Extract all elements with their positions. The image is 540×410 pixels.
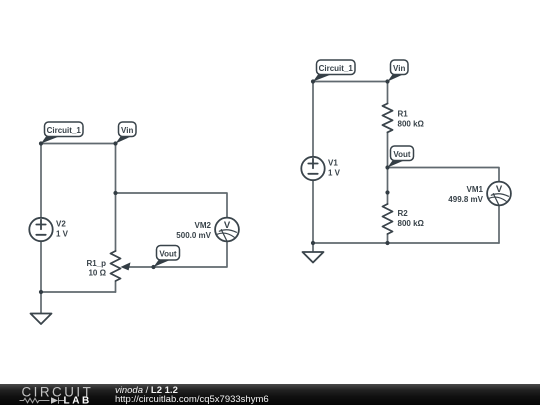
wiper arrow of R1_p [121,262,131,270]
CircuitLab logo [0,384,110,405]
wire: VM2 bottom to wiper [127,242,227,268]
node Vout (right) [385,165,389,169]
svg-text:R1_p: R1_p [86,259,106,268]
svg-text:VM2: VM2 [195,221,212,230]
wire: bottom rail [313,242,499,244]
svg-text:10 Ω: 10 Ω [88,268,106,277]
svg-text:R2: R2 [398,209,409,218]
node Vout (left) [151,265,155,269]
footer bar [0,384,540,405]
svg-text:Circuit_1: Circuit_1 [47,126,82,135]
wire: Vin down to R1_p top [115,144,117,252]
voltmeter VM1 [487,182,511,206]
svg-text:499.8 mV: 499.8 mV [448,195,483,204]
wire: R1 bottom to Vout to R2 [387,132,389,204]
node Vin (left) [113,141,117,145]
node Circuit_1 (right) [311,79,315,83]
svg-text:Vout: Vout [393,150,411,159]
svg-text:1 V: 1 V [56,230,69,239]
svg-text:500.0 mV: 500.0 mV [176,231,211,240]
voltmeter VM2 [215,218,239,242]
svg-text:LAB: LAB [64,396,92,405]
svg-text:V1: V1 [328,159,338,168]
svg-text:Circuit_1: Circuit_1 [319,64,354,73]
wire: V2 top lead [40,144,42,218]
svg-text:1 V: 1 V [328,169,341,178]
junction dot at VM2 tap [113,191,117,195]
wire: V1 top lead [312,82,314,157]
wire: bottom ground rail [41,291,116,293]
node Circuit_1 (left) [39,141,43,145]
junction dot between Vout and R2 [385,190,389,194]
wire: tap to VM2 top [116,193,228,218]
ground (left) [40,292,42,314]
wire: top rail Circuit_1 to Vin [313,81,388,83]
ground (right) [312,243,314,252]
wire: Vout to VM1 [388,168,500,182]
wire: R2 bottom lead [387,234,389,243]
wire: V2 bottom lead to ground rail [40,242,42,293]
voltage source V1 [301,157,324,180]
junction dot R2 bottom [385,241,389,245]
wire: Vin down to R1 [387,82,389,104]
junction dot V1/ground [311,241,315,245]
svg-text:V2: V2 [56,220,66,229]
voltage source V2 [29,218,52,241]
node Vin (right) [385,79,389,83]
svg-text:800 kΩ: 800 kΩ [398,219,425,228]
wire: VM1 bottom lead [498,206,500,244]
svg-text:Vin: Vin [121,126,133,135]
resistor R1 [383,104,393,133]
wire: R1_p bottom lead [115,282,117,292]
svg-text:VM1: VM1 [467,185,484,194]
potentiometer R1_p [111,251,121,281]
svg-text:Vout: Vout [159,249,177,258]
resistor R2 [383,204,393,234]
wire: V1 bottom lead [312,181,314,244]
svg-text:R1: R1 [398,110,409,119]
svg-text:Vin: Vin [393,64,405,73]
svg-text:800 kΩ: 800 kΩ [398,120,425,129]
wire: top rail Circuit_1 to Vin [41,143,116,145]
junction dot at V2/ground rail [39,290,43,294]
